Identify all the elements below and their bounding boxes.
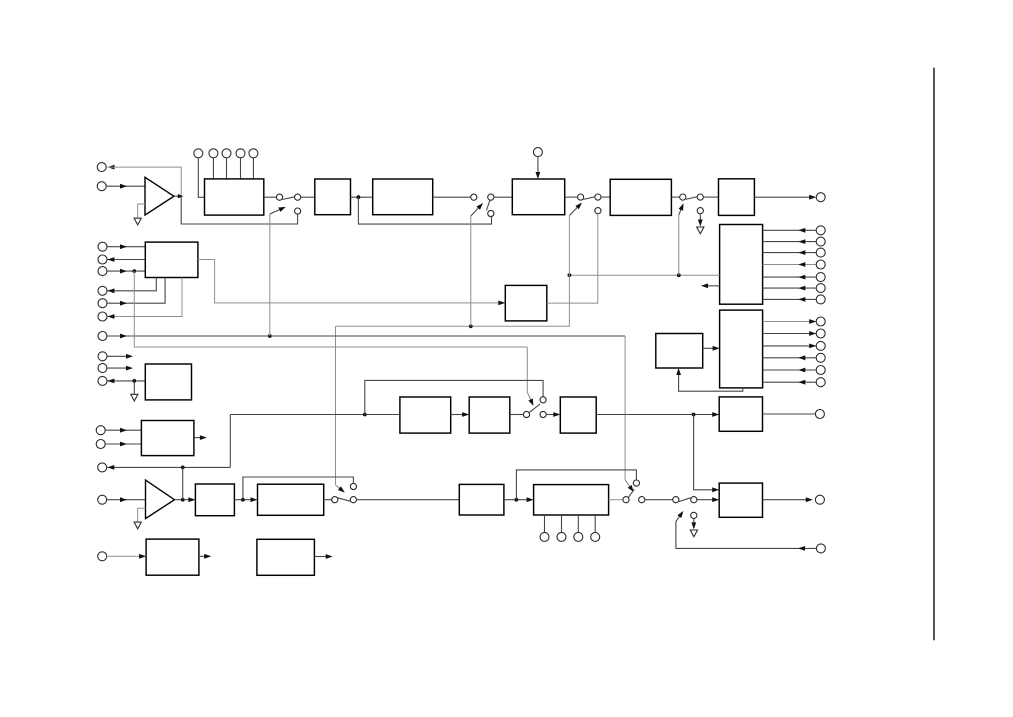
pin RA1 (816, 226, 825, 235)
switch SW3 lower contact (595, 208, 601, 214)
wire net-D horizontal (107, 334, 625, 339)
node ADC bypass junction (515, 498, 519, 502)
wire SW6 to SW7 (645, 499, 673, 501)
pin RA3 (816, 248, 825, 257)
pin BT1 (98, 552, 107, 561)
wire ADC2 stem 4 (594, 515, 596, 532)
wire SW4 lower contact to ground (698, 214, 703, 227)
pin BL1 (96, 426, 105, 435)
switch SW7 lever (679, 498, 691, 502)
pin TOP3 (222, 149, 231, 158)
wire SW7 to DAC2 (697, 497, 719, 502)
pin TOP2 (209, 149, 218, 158)
wire U1 output to AOUTL (108, 167, 182, 196)
wire REGA line 4 (763, 262, 817, 267)
wire mid bypass rail to SWM upper contact (365, 380, 543, 414)
block AGC (258, 484, 324, 515)
wire CTL to ML6 (107, 278, 182, 319)
switch SWM contact A (523, 411, 529, 417)
wire CTRLIN to SW7 control (676, 522, 817, 551)
wire SW4 to block OUTG (703, 196, 718, 198)
wire AGC to SW5 (324, 499, 332, 501)
pin DOUT (816, 193, 825, 202)
wire SRC to SW3 (565, 196, 578, 198)
block TMR (257, 539, 315, 575)
block SRC (512, 179, 564, 215)
switch SWM upper contact (540, 397, 546, 403)
wire SWM to VOL (546, 412, 560, 417)
switch SWM lever (529, 404, 540, 413)
block OUTG (719, 179, 755, 216)
pin RA4 (816, 260, 825, 269)
switch SW7 lower contact (691, 512, 697, 518)
block REGB (control register B) (720, 310, 763, 388)
wire REGB in line 5 (763, 368, 817, 373)
wire ADC1 to ADC2 (504, 497, 534, 502)
block HPF (195, 484, 234, 516)
switch SW1 lever (282, 197, 294, 200)
ground G4 at U2 (134, 508, 145, 529)
wire TOP4 stem (240, 158, 242, 179)
switch SW2 control arrow (471, 203, 483, 216)
switch SW4 contact A (680, 194, 686, 200)
switch SW6 lever (628, 489, 634, 497)
wire EQ to SW4 (671, 196, 679, 198)
pin RB1 (816, 317, 825, 326)
wire REGB out line 1 (763, 319, 817, 324)
pin TOP4 (236, 149, 245, 158)
wire TOP6 into SRC (536, 157, 541, 179)
wire DF1 bypass to SW2 lower contact (358, 197, 491, 224)
wire REGA line 3 (763, 250, 817, 255)
wire FIL1 to FIL2 (451, 412, 470, 417)
pin BL2 (96, 440, 105, 449)
pin ML6 (98, 312, 107, 321)
pin RA5 (816, 273, 825, 282)
wire HPF to AGC (234, 497, 257, 502)
node net-C SW4 tap (677, 273, 681, 277)
pin ML5 (98, 299, 107, 308)
wire REGB bottom to DEC (676, 368, 743, 391)
wire net-D to SW6 control (625, 336, 634, 492)
wire net-C down segment (336, 275, 570, 326)
pin RA7 (816, 295, 825, 304)
pin BL4 (98, 495, 107, 504)
wire REGA line 2 (763, 239, 817, 244)
block DEC (decoder) (656, 334, 703, 369)
switch SW4 control arrow (679, 203, 684, 215)
node mid bypass junction (363, 413, 367, 417)
switch SW1 contact B (295, 194, 301, 200)
wire OUTG to pin DOUT (754, 195, 816, 200)
wire U1 bypass rail to SW1 lower contact (181, 196, 297, 224)
arrow stub ML8 (107, 354, 133, 359)
block DAC2 (719, 483, 762, 517)
MON dangling output arrow (194, 435, 207, 440)
pin RB6 (816, 378, 825, 387)
wire TOP5 stem (252, 158, 254, 179)
wire IF to SW1 (264, 196, 277, 198)
block DF2 (373, 179, 433, 215)
pin RA2 (816, 237, 825, 246)
wire main mid chain (230, 414, 400, 416)
block MON (monitor) (141, 421, 194, 456)
pin ML2 (98, 255, 107, 264)
wire BL1 to MON (105, 428, 141, 433)
wire REGB out line 3 (763, 344, 817, 349)
pin RB2 (816, 329, 825, 338)
block FIL2 (469, 397, 510, 433)
switch SW5 lever (338, 498, 351, 501)
wire REGA line 5 (763, 275, 817, 280)
wire ADC2 stem 3 (577, 515, 579, 532)
wire VOL to DAC1 (596, 412, 719, 417)
block MIX (505, 285, 547, 321)
block REGA (control register A) (720, 225, 763, 305)
wire U2 output to BL3 (107, 465, 230, 470)
switch SW3 contact A (578, 194, 584, 200)
switch SW3 control arrow (569, 203, 582, 216)
ground G3 (131, 394, 138, 401)
node J1 (357, 195, 361, 199)
ground G2 at SW4 (697, 227, 704, 234)
block DF1 (315, 179, 351, 215)
wire ADC2 to SW6 (609, 499, 623, 501)
switch SW4 lever (686, 197, 698, 200)
wire net-B routing (134, 271, 527, 347)
block REF (reference) (145, 364, 191, 400)
pin AINL (97, 182, 106, 191)
pin ML9 (98, 364, 107, 373)
pin ML3 (98, 267, 107, 276)
pin ADC pin2 (557, 532, 566, 541)
pin BL3 (98, 463, 107, 472)
wire net-C to SW3 control (568, 216, 570, 276)
wire TOP3 stem (226, 158, 228, 179)
wire BL2 to MON (105, 442, 141, 447)
REGA dangling output arrow (701, 283, 720, 288)
node ground tap (132, 379, 136, 383)
node DAC junction (692, 413, 696, 417)
wire DF1 to DF2 (351, 196, 373, 198)
node BL3 junction (181, 466, 185, 470)
wire REGB in line 4 (763, 355, 817, 360)
pin ADC pin3 (574, 532, 583, 541)
wire MIX out to SW3 lower contact (547, 214, 598, 303)
wire BL3 riser to mid chain (229, 415, 231, 468)
switch SW4 contact B (697, 194, 703, 200)
wire ADC2 stem 2 (561, 515, 563, 532)
wire CTL to ML2 (107, 257, 145, 262)
block ADC1 (459, 484, 504, 515)
wire net-C from REGA (569, 274, 719, 276)
wire DF2 to SW2 (433, 196, 471, 198)
pin ML4 (98, 286, 107, 295)
wire DAC2 to pin SOUT (763, 497, 813, 502)
pin ML8 (98, 352, 107, 361)
node net-C SW3 tap (568, 273, 572, 277)
wire net-B to SWM control (527, 347, 533, 406)
switch SW7 contact A (673, 497, 679, 503)
pin RB4 (816, 353, 825, 362)
switch SW2 contact B (488, 194, 494, 200)
wire U2 tee up (182, 467, 184, 499)
wire SW3 to block EQ (601, 196, 610, 198)
wire ML5 to CTL (107, 278, 165, 306)
pin AOUTL (97, 163, 114, 172)
wire TOP2 stem (212, 158, 214, 179)
pin CTRLIN (816, 544, 825, 553)
wire DEC to REGB (703, 346, 720, 351)
arrow stub ML9 (107, 366, 133, 371)
op-amp U1 (145, 177, 174, 215)
switch SW2 lever (486, 200, 490, 210)
wire BT1 to OSC (107, 554, 146, 559)
switch SW6 upper contact (633, 480, 639, 486)
wire TOP1 to block IF (198, 158, 204, 198)
block OSC (146, 539, 199, 575)
wire REF to ML10 (107, 379, 145, 384)
wire SW5 to ADC1 (357, 499, 460, 501)
wire net-C to SW5 control (336, 326, 345, 492)
wire bypass rail to SW5 upper contact (243, 477, 354, 500)
switch SW5 upper contact (350, 483, 356, 489)
wire net-C to SW2 control (470, 216, 472, 326)
pin RA6 (816, 284, 825, 293)
node U2 output tee (181, 498, 185, 502)
node HPF bypass junction (241, 498, 245, 502)
ground G1 at U1 (134, 204, 145, 225)
switch SW1 lower contact (295, 208, 301, 214)
wire CTL to ML4 (107, 278, 156, 294)
switch SW5 contact A (332, 497, 338, 503)
wire ML1 to CTL (107, 244, 145, 249)
block DAC1 (719, 397, 762, 431)
wire REGB in line 6 (763, 380, 817, 385)
switch SW3 lever (584, 197, 596, 200)
switch SW1 contact A (276, 194, 282, 200)
wire SW7 lower to ground (691, 519, 696, 530)
op-amp U2 (146, 480, 175, 518)
wire to ground G3 (133, 381, 135, 394)
wire SW1 to block DF1 (301, 196, 315, 198)
page border rule (933, 68, 935, 641)
switch SW6 contact A (623, 497, 629, 503)
TMR dangling output arrow (314, 554, 332, 559)
block ADC2 (534, 485, 609, 515)
switch SW6 contact B (639, 497, 645, 503)
wire ADC2 stem 1 (544, 515, 546, 532)
switch SW2 lower contact (488, 210, 494, 216)
switch SWM contact B (540, 411, 546, 417)
switch SW3 contact B (595, 194, 601, 200)
wire U2 out to HPF (175, 497, 196, 502)
node net-C SW2 tap (469, 324, 473, 328)
switch SW7 contact B (691, 497, 697, 503)
block FIL1 (400, 397, 451, 433)
pin ML7 (net-D source) (98, 332, 107, 341)
pin LOUT (815, 410, 824, 419)
wire ML3 to CTL (107, 269, 145, 274)
block VOL (560, 397, 596, 433)
block CTL (control logic) (145, 242, 198, 277)
node net-B origin (132, 269, 136, 273)
switch SW2 contact A (471, 194, 477, 200)
wire net-D to SW1 control (269, 214, 271, 336)
wire DAC1 to pin LOUT (763, 413, 816, 415)
wire REGA line 6 (763, 286, 817, 291)
pin RB5 (816, 366, 825, 375)
ground G5 at SW7 (690, 530, 697, 537)
wire REGA line 7 (763, 297, 817, 302)
switch SW5 contact B (350, 497, 356, 503)
pin RB3 (816, 341, 825, 350)
pin ML1 (98, 242, 107, 251)
pin SOUT (815, 495, 824, 504)
switch SW4 lower contact (697, 208, 703, 214)
wire REGA line 1 (763, 228, 817, 233)
pin TOP6 (533, 148, 542, 157)
node U1 output junction (174, 194, 183, 198)
wire net-C to SW4 control (678, 215, 680, 275)
wire CTL to MIX (198, 260, 505, 306)
wire junction to DAC2 upper input (694, 415, 720, 493)
node net-D SW1 tap (268, 334, 272, 338)
wire REGB out line 2 (763, 331, 817, 336)
pin ADC pin4 (591, 532, 600, 541)
pin ML10 (98, 376, 107, 385)
block IF (input interface) (205, 179, 264, 215)
block EQ (610, 179, 671, 215)
wire SW2 to block SRC (494, 196, 512, 198)
wire AINL to U1 (106, 184, 145, 189)
wire FIL2 to SWM (510, 414, 524, 416)
switch SW1 control arrow (270, 207, 286, 214)
SW7 control arrow (676, 511, 684, 522)
pin TOP1 (194, 149, 203, 158)
wire BL4 to U2 (107, 497, 146, 502)
OSC dangling output arrow (199, 554, 211, 559)
pin TOP5 (249, 149, 258, 158)
wire bypass rail to SW6 upper contact (516, 470, 636, 500)
pin ADC pin1 (540, 532, 549, 541)
